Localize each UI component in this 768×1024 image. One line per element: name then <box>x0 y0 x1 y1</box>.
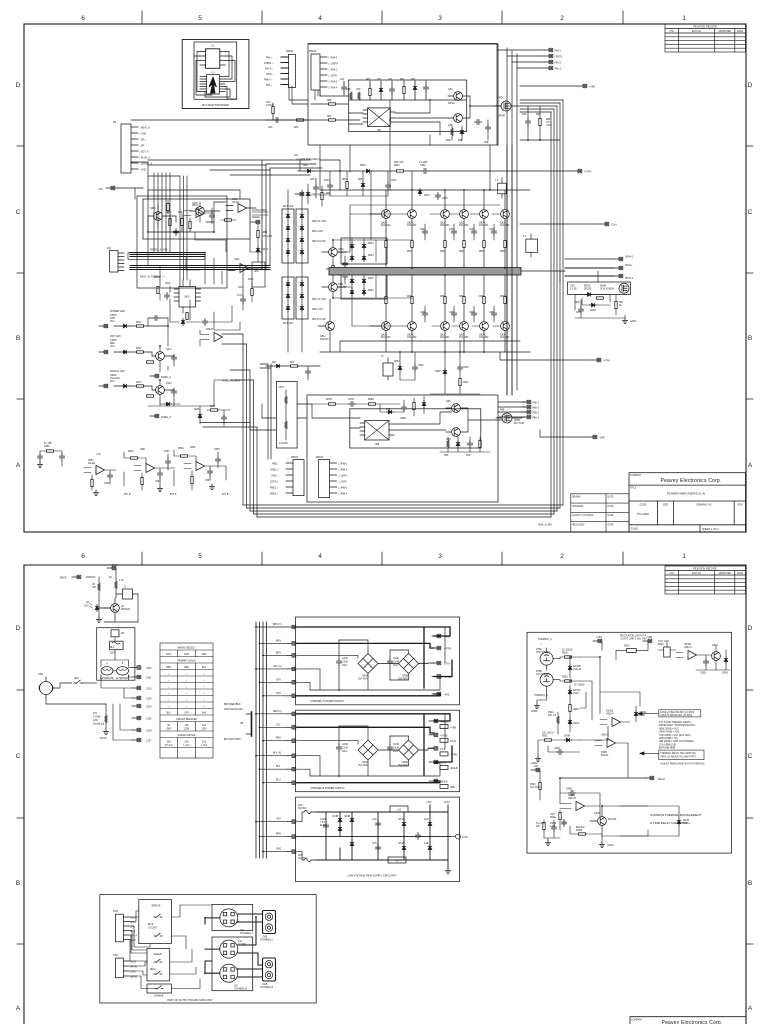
svg-text:R92A: R92A <box>548 711 554 714</box>
svg-text:U861: U861 <box>140 449 146 451</box>
svg-text:Q905: Q905 <box>594 813 600 815</box>
svg-text:═: ═ <box>202 706 205 708</box>
svg-text:3.0a: 3.0a <box>202 742 207 744</box>
input stage extra parts <box>167 200 236 232</box>
svg-text:+VR: +VR <box>96 454 101 456</box>
svg-text:THERMAL_A: THERMAL_A <box>538 638 552 641</box>
sheet1 junction dots <box>147 99 541 381</box>
svg-text:PCA: PCA <box>110 380 115 383</box>
top-right nested verticals from top block <box>497 44 517 396</box>
svg-text:-VRB: -VRB <box>440 763 446 765</box>
svg-text:VENT LO ABOVE 70C (AMP OFF): VENT LO ABOVE 70C (AMP OFF) <box>660 755 696 758</box>
svg-text:LED: LED <box>84 606 89 608</box>
svg-text:1: 1 <box>682 553 686 560</box>
channel A bold rail wires <box>297 627 452 696</box>
LED plugs left column <box>99 324 108 387</box>
svg-text:100 1K/4K: 100 1K/4K <box>530 787 541 789</box>
svg-text:BB RGNB MMB: BB RGNB MMB <box>659 748 676 750</box>
svg-text:U801: U801 <box>232 199 238 201</box>
thermal lower mid wires <box>560 754 648 836</box>
speaker enclosure box A <box>212 904 253 930</box>
svg-text:C4H: C4H <box>372 843 377 845</box>
channel A right terminals <box>432 634 452 696</box>
svg-text:THERMAL_B: THERMAL_B <box>534 694 548 697</box>
svg-text:BLK (X): BLK (X) <box>273 753 281 755</box>
svg-text:U860: U860 <box>88 460 94 462</box>
nested routing rectangles right side <box>551 100 563 517</box>
svg-text:10W: 10W <box>93 720 99 722</box>
svg-text:R8R 2.2W: R8R 2.2W <box>312 309 323 311</box>
svg-text:▢ P8A-1: ▢ P8A-1 <box>328 57 338 60</box>
wires around DDT <box>160 240 262 322</box>
channel A bridge BR1 <box>358 654 378 681</box>
svg-text:+RAILB: +RAILB <box>440 721 448 724</box>
svg-text:BLU: BLU <box>276 780 281 782</box>
sheet 1 revision record table <box>665 24 746 52</box>
svg-text:R8J: R8J <box>619 302 623 304</box>
relay bottom parts <box>536 820 602 846</box>
DDT IC U802 <box>174 280 201 313</box>
svg-text:250V: 250V <box>166 729 172 731</box>
svg-text:-RAIL: -RAIL <box>444 694 451 697</box>
mid option box <box>252 262 265 287</box>
svg-text:J2A: J2A <box>121 632 125 635</box>
wire and plug -VRB <box>540 430 605 440</box>
svg-text:ELEC: ELEC <box>320 825 326 827</box>
channel B right terminals with fuse boxes <box>429 719 458 789</box>
top block upper feed wires <box>320 90 430 190</box>
svg-text:D82: D82 <box>411 79 416 81</box>
svg-text:HMT-100: HMT-100 <box>394 162 404 164</box>
lower thermal resistor R93C <box>530 778 541 800</box>
svg-text:CR92C: CR92C <box>573 690 581 692</box>
svg-text:A(cold) adj: A(cold) adj <box>93 723 104 726</box>
svg-text:1K 1N/1W: 1K 1N/1W <box>574 685 585 687</box>
svg-text:C862: C862 <box>155 481 161 483</box>
svg-text:C833: C833 <box>469 229 475 231</box>
svg-text:═: ═ <box>185 700 188 702</box>
input stage transistor Q802 <box>190 202 204 222</box>
relay box BRIDGE <box>139 900 172 944</box>
svg-text:INA→: INA→ <box>99 188 105 191</box>
svg-text:C82: C82 <box>388 79 393 81</box>
sheet 1 title block <box>629 473 746 532</box>
svg-text:APPROVED: APPROVED <box>718 30 731 33</box>
DDT surrounding resistors caps <box>154 277 254 326</box>
terminal C308 <box>120 704 152 733</box>
lower base resistors row <box>420 311 497 318</box>
svg-text:125V: 125V <box>201 729 207 731</box>
svg-text:○ HEAT_A: ○ HEAT_A <box>139 127 150 130</box>
upper emitter resistors row <box>407 241 506 254</box>
svg-text:+RAIL: +RAIL <box>444 636 451 639</box>
svg-text:+VRA: +VRA <box>596 636 603 639</box>
svg-text:GRN8: GRN8 <box>110 375 117 377</box>
svg-text:2/COND: 2/COND <box>148 928 157 930</box>
svg-text:1 ohm: 1 ohm <box>201 745 207 747</box>
svg-text:5: 5 <box>198 15 202 22</box>
output stage base bus wires <box>333 205 501 326</box>
svg-text:═: ═ <box>167 674 170 676</box>
svg-text:GRN: GRN <box>110 318 115 320</box>
input op-amp U801b <box>184 204 214 218</box>
bottom block mid wires <box>312 404 522 432</box>
sheet 1 approval table <box>571 494 629 532</box>
top outer box lid <box>308 43 497 45</box>
svg-text:1K: 1K <box>619 305 622 307</box>
channel B bridge BR2 <box>398 740 419 767</box>
DCT adaptor board outline <box>182 40 249 109</box>
thermal left lower parts <box>531 733 580 766</box>
verticals to P8403 <box>260 364 271 459</box>
plug P8B-1 <box>522 400 540 404</box>
svg-text:BRN: BRN <box>166 667 171 669</box>
terminal C302 <box>129 666 153 670</box>
svg-text:P8B-1: P8B-1 <box>533 403 540 405</box>
svg-text:R929: R929 <box>562 677 568 679</box>
CB harness label <box>224 738 241 741</box>
svg-text:Q906: Q906 <box>712 645 718 647</box>
svg-text:C303: C303 <box>146 689 152 691</box>
svg-text:DATE: DATE <box>608 505 614 508</box>
top feed components above rail <box>340 161 490 174</box>
svg-text:GRY: GRY <box>184 713 189 715</box>
svg-text:220V/120V/100V: 220V/120V/100V <box>224 708 243 711</box>
transformer thermal switch box <box>111 630 125 641</box>
svg-text:C865: C865 <box>214 449 220 451</box>
svg-text:3: 3 <box>438 553 442 560</box>
svg-text:P8B▢: P8B▢ <box>272 463 279 466</box>
svg-text:U8A: U8A <box>377 129 382 132</box>
svg-text:═: ═ <box>167 700 170 702</box>
svg-text:4: 4 <box>318 15 322 22</box>
svg-text:SERIAL_A: SERIAL_A <box>252 216 263 219</box>
speaker terminal circle mid <box>220 940 247 958</box>
breaker top plug WP1 <box>107 565 118 572</box>
svg-text:D: D <box>748 82 753 89</box>
svg-text:J30B: J30B <box>262 984 268 986</box>
bottom-left op-amp stage 2 <box>124 449 175 496</box>
output board harness wires <box>129 905 212 989</box>
svg-text:R93M: R93M <box>576 830 582 832</box>
svg-text:SER-B: SER-B <box>130 977 137 979</box>
svg-text:PCA: PCA <box>110 320 115 323</box>
svg-text:LTR: LTR <box>670 31 675 33</box>
svg-text:Q8C: Q8C <box>446 401 451 403</box>
svg-text:BLU: BLU <box>167 713 172 715</box>
plug P8B-2 <box>522 405 540 409</box>
svg-text:+VRB: +VRB <box>450 728 457 730</box>
svg-text:═: ═ <box>202 693 205 695</box>
svg-text:GRN8: GRN8 <box>110 340 117 342</box>
svg-text:R88B: R88B <box>368 399 374 401</box>
input op-amp U801 LM318 <box>226 199 256 213</box>
svg-text:▢ LBTR: ▢ LBTR <box>328 75 337 78</box>
svg-text:WP1: WP1 <box>112 565 118 567</box>
svg-text:Q8L1: Q8L1 <box>166 349 172 351</box>
svg-text:200V: 200V <box>342 751 348 753</box>
svg-text:2: 2 <box>560 15 564 22</box>
fan output cap and transistor <box>696 645 730 675</box>
comparator U903-A <box>600 711 630 727</box>
svg-text:R850: R850 <box>394 165 400 167</box>
svg-text:GRN8: GRN8 <box>110 315 117 317</box>
svg-text:D813: D813 <box>358 179 364 181</box>
svg-text:HPWR: HPWR <box>498 116 505 118</box>
sheet 1 left zone letters and ticks <box>17 146 24 399</box>
driver transistor upper Q820 <box>370 190 391 267</box>
svg-text:P8A-3: P8A-3 <box>555 68 562 71</box>
bias ladder box A lower <box>282 277 294 319</box>
svg-text:5: 5 <box>198 553 202 560</box>
svg-text:LBTN▢: LBTN▢ <box>270 481 278 484</box>
breaker coil box J1 <box>116 587 138 600</box>
svg-text:SPK-: SPK- <box>130 927 136 929</box>
svg-text:▢ P8A-4: ▢ P8A-4 <box>328 87 338 90</box>
svg-text:R8H: R8H <box>575 302 580 304</box>
svg-text:C: C <box>748 209 753 216</box>
svg-text:R87B: R87B <box>326 399 332 401</box>
channel B terminal drop wires <box>256 714 287 783</box>
fan trim pot <box>658 640 676 657</box>
svg-text:R93B: R93B <box>601 752 607 754</box>
svg-text:POWER LED: POWER LED <box>110 310 125 313</box>
svg-text:C97T: C97T <box>550 814 556 816</box>
svg-text:COM: COM <box>444 802 449 804</box>
svg-text:47-16B: 47-16B <box>44 443 52 445</box>
svg-text:═: ═ <box>185 706 188 708</box>
svg-text:30A: 30A <box>184 741 189 744</box>
plug PANEL_A upper <box>150 374 172 379</box>
svg-text:U802: U802 <box>184 297 190 299</box>
svg-text:CT+A: CT+A <box>444 663 450 666</box>
svg-text:U903-B: U903-B <box>601 735 609 737</box>
terminal C301 <box>129 675 153 680</box>
svg-text:SPKA-1: SPKA-1 <box>625 256 634 259</box>
svg-text:○ DDT_A: ○ DDT_A <box>139 151 149 154</box>
svg-text:R812: R812 <box>248 279 254 281</box>
thermal mid vertical wires <box>580 641 648 740</box>
svg-text:MJ15024: MJ15024 <box>381 225 391 227</box>
svg-text:D823: D823 <box>368 243 374 245</box>
svg-text:SUPPLY: SUPPLY <box>298 858 307 860</box>
sheet 2 title block (partial, cut at page bottom) <box>630 1017 746 1024</box>
svg-text:BOTTOM: BOTTOM <box>514 423 524 425</box>
svg-text:MJE340: MJE340 <box>320 339 329 341</box>
svg-text:RT1: RT1 <box>93 713 98 715</box>
svg-text:R93C: R93C <box>530 784 536 786</box>
svg-text:2.2M: 2.2M <box>550 826 555 828</box>
svg-text:C832: C832 <box>449 229 455 231</box>
input board outer outline <box>137 196 227 288</box>
mains cord wires <box>46 683 106 704</box>
svg-text:C304: C304 <box>146 707 152 709</box>
svg-text:LPBTR: LPBTR <box>555 57 563 59</box>
channel B internal wires <box>297 714 445 783</box>
svg-text:NTC/THERM: NTC/THERM <box>536 652 550 654</box>
plug P8A-1 <box>544 48 562 52</box>
svg-text:R936: R936 <box>658 644 664 646</box>
svg-text:MJ15025: MJ15025 <box>381 337 391 339</box>
nested routing rectangles bottom <box>243 505 563 517</box>
svg-text:200V: 200V <box>393 665 399 667</box>
svg-text:ATTEN: ATTEN <box>266 104 274 107</box>
svg-text:CHECKED: CHECKED <box>572 506 584 508</box>
svg-text:CR8A: CR8A <box>362 675 369 678</box>
svg-text:SP8R: SP8R <box>514 420 520 422</box>
nested routing left elbow to LED area <box>200 334 257 427</box>
svg-text:R82: R82 <box>366 79 371 81</box>
svg-text:R864: R864 <box>178 448 184 450</box>
svg-text:═: ═ <box>202 674 205 676</box>
svg-text:THERMAL RELAY TRG (AMP ON): THERMAL RELAY TRG (AMP ON) <box>660 752 696 755</box>
bias ladder box A upper <box>282 209 294 263</box>
top block resistor row left <box>311 89 361 121</box>
note footer text <box>660 763 705 766</box>
mosfet M2 bottom block <box>496 410 524 426</box>
svg-text:CHANNEL A: CHANNEL A <box>240 932 253 935</box>
svg-text:D8H2: D8H2 <box>590 310 597 312</box>
predriver transistor Q811 <box>322 276 347 298</box>
svg-text:-RAILB: -RAILB <box>450 767 458 770</box>
svg-text:6: 6 <box>81 15 85 22</box>
bias spreader box lower <box>341 273 387 299</box>
svg-text:C8P: C8P <box>466 455 471 457</box>
svg-text:▢ LBTR: ▢ LBTR <box>338 475 347 478</box>
svg-text:LINE: LINE <box>38 674 44 676</box>
terminal C304 <box>132 704 152 708</box>
svg-text:C845: C845 <box>442 198 448 200</box>
channel B bold rail wires <box>297 714 452 783</box>
svg-text:R8F: R8F <box>536 114 541 116</box>
op-amp U8C slope amp <box>200 329 223 346</box>
predriver emitter resistors <box>326 256 348 284</box>
svg-text:R848: R848 <box>463 382 469 384</box>
svg-text:DATE: DATE <box>608 514 614 517</box>
svg-text:P8B-4: P8B-4 <box>533 418 540 420</box>
svg-text:CR8A: CR8A <box>573 722 580 725</box>
svg-text:220V: 220V <box>166 654 172 656</box>
svg-text:CR8V: CR8V <box>262 249 269 251</box>
svg-text:C: C <box>16 753 21 760</box>
svg-text:A: A <box>16 462 21 469</box>
svg-text:C850: C850 <box>420 165 426 167</box>
wire and plug -VTRA <box>500 352 610 363</box>
svg-text:1 ohm: 1 ohm <box>183 745 189 747</box>
svg-text:DDT LED: DDT LED <box>110 335 121 338</box>
channel A terminal drop wires <box>256 627 287 696</box>
svg-text:▢ P8B-3: ▢ P8B-3 <box>338 487 348 490</box>
svg-text:C810: C810 <box>165 283 171 285</box>
svg-text:C838: C838 <box>469 312 475 314</box>
svg-text:GNDA: GNDA <box>630 320 637 323</box>
svg-text:PANEL_A: PANEL_A <box>161 416 172 419</box>
svg-text:GNDA: GNDA <box>607 844 614 847</box>
svg-text:R8L2: R8L2 <box>136 348 142 350</box>
svg-text:R LOAD: R LOAD <box>536 822 545 825</box>
svg-text:C8G: C8G <box>570 286 575 288</box>
plug P8B-3 <box>522 410 540 414</box>
svg-text:R813: R813 <box>342 179 348 181</box>
svg-text:+VRA: +VRA <box>589 86 596 89</box>
svg-text:PN2222: PN2222 <box>608 819 617 821</box>
vertical bundle P8402 to DDT <box>148 176 187 287</box>
svg-text:═: ═ <box>185 693 188 695</box>
svg-text:-VTRA: -VTRA <box>603 360 610 363</box>
svg-text:C4E: C4E <box>424 843 429 845</box>
svg-text:P302: P302 <box>113 955 119 957</box>
svg-text:SPK-B: SPK-B <box>130 967 137 969</box>
svg-text:CT+B: CT+B <box>450 741 456 743</box>
svg-text:BRN: BRN <box>276 640 281 642</box>
svg-text:C8C: C8C <box>356 89 361 91</box>
svg-text:MAINS SELECT: MAINS SELECT <box>177 647 196 650</box>
svg-text:○ SP-: ○ SP- <box>139 145 145 148</box>
svg-text:-VRB: -VRB <box>599 438 605 440</box>
svg-text:○ BLUE_A: ○ BLUE_A <box>139 157 150 160</box>
thermal resistor chain R928 <box>553 650 580 659</box>
svg-text:C860: C860 <box>44 446 50 448</box>
svg-text:NTC/THERM: NTC/THERM <box>536 674 550 676</box>
plug P8A-3 <box>544 66 562 70</box>
svg-text:U862: U862 <box>190 447 196 449</box>
connector P8 ribbon header <box>113 121 152 173</box>
breaker ground <box>96 594 138 623</box>
channel B bridge BR1 <box>358 740 378 767</box>
svg-text:QUALITY CONTROL: QUALITY CONTROL <box>572 514 594 517</box>
sheet 2 revision record table <box>665 566 746 594</box>
svg-text:R83: R83 <box>400 79 405 81</box>
svg-text:R8A: R8A <box>294 126 299 129</box>
svg-text:NEW GRNB = 0VC: NEW GRNB = 0VC <box>659 728 679 730</box>
svg-text:4.7K: 4.7K <box>119 580 124 582</box>
svg-text:LM393: LM393 <box>684 644 692 646</box>
upper output transistor row Q821-Q825 <box>407 210 510 227</box>
svg-text:R8M 10 1/4W: R8M 10 1/4W <box>312 221 327 223</box>
svg-text:R862: R862 <box>128 451 134 453</box>
connector P302 <box>113 955 137 979</box>
svg-text:BRN (X): BRN (X) <box>273 624 282 626</box>
svg-text:C8B: C8B <box>346 89 351 91</box>
svg-text:LM339: LM339 <box>568 795 576 797</box>
svg-text:BLK: BLK <box>276 766 281 768</box>
sheet2 junction dots <box>255 626 603 852</box>
svg-text:P8D: P8D <box>498 98 503 100</box>
svg-text:COM: COM <box>130 972 135 974</box>
input stage transistor Q801 <box>148 205 162 227</box>
svg-text:YELLOW: YELLOW <box>110 378 120 380</box>
wires input stage to bus <box>131 120 308 232</box>
svg-text:RELEASED: RELEASED <box>572 523 585 526</box>
svg-text:-VTRA: -VTRA <box>444 676 451 679</box>
svg-text:C814: C814 <box>391 180 397 182</box>
ribbon bus RAIL-A2 upper <box>130 249 205 257</box>
svg-text:LPBD2 ○: LPBD2 ○ <box>264 62 274 65</box>
channel B power supply box <box>296 710 460 792</box>
svg-text:CR4B: CR4B <box>332 816 339 818</box>
svg-text:CA09: CA09 <box>393 743 399 746</box>
svg-text:D850: D850 <box>360 165 366 167</box>
svg-text:+VTRA: +VTRA <box>444 648 452 651</box>
thermal breaker input plug <box>60 575 95 579</box>
connector P8403 <box>270 456 304 496</box>
DCT cursor arrow glyph <box>209 77 217 93</box>
svg-text:U903-A: U903-A <box>606 713 614 716</box>
svg-text:SLOPE FREQ: SLOPE FREQ <box>252 210 267 212</box>
bias spreader box upper <box>341 238 387 264</box>
svg-text:C4F6: C4F6 <box>320 819 326 821</box>
svg-text:C864: C864 <box>205 480 211 482</box>
